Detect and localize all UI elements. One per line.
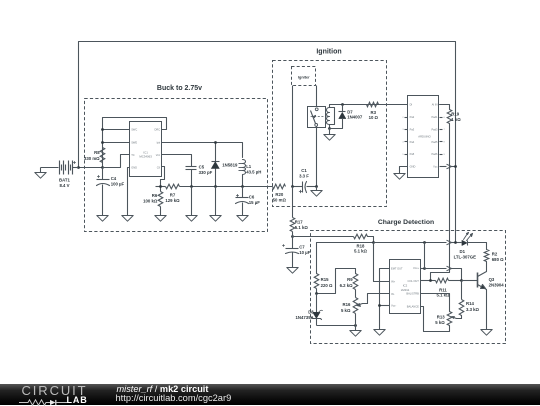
svg-text:ARDUINO: ARDUINO — [418, 135, 430, 139]
zener bar — [312, 318, 322, 320]
svg-text:680 Ω: 680 Ω — [492, 257, 504, 262]
wire SWC row — [103, 129, 130, 131]
inductor tick — [239, 163, 243, 165]
resistor R11 5.1 kOhm — [436, 278, 449, 283]
node R17/C7/R18 junction — [291, 235, 294, 238]
wire coil bottom to ground — [329, 129, 331, 135]
svg-text:Pad1: Pad1 — [431, 115, 438, 119]
wire buck output rail — [180, 186, 273, 188]
svg-text:Igniter: Igniter — [298, 76, 310, 80]
svg-text:5.1 kΩ: 5.1 kΩ — [354, 249, 368, 254]
ground (Q3) — [481, 330, 492, 336]
node C5/rail junction — [190, 185, 193, 188]
svg-text:5 kΩ: 5 kΩ — [341, 308, 351, 313]
node battery rail end junction — [454, 241, 457, 244]
node R15/R9/D8 junction — [315, 292, 318, 295]
resistor R8 330 mOhm — [100, 148, 105, 163]
capacitor C5 330 pF — [186, 166, 197, 168]
svg-text:R2: R2 — [492, 251, 498, 256]
pin stub — [405, 154, 408, 156]
capacitor C6 15 uF — [242, 187, 244, 198]
wire Arduino Vcc to battery rail — [440, 166, 447, 168]
node base junction — [460, 279, 463, 282]
LED arrow 2 — [467, 235, 472, 241]
LED D1 LTL-307GE — [462, 240, 467, 245]
node C1/relay junction — [315, 185, 318, 188]
node buck input junction — [101, 166, 104, 169]
Q3 emitter arrow — [481, 285, 486, 289]
wire wiper to IN- — [368, 294, 390, 304]
dashed box: Ignition section — [273, 61, 387, 207]
svg-text:R9: R9 — [347, 277, 353, 282]
svg-text:R7: R7 — [170, 192, 176, 197]
svg-text:LTL-307GE: LTL-307GE — [454, 254, 476, 259]
node Vcc+ junction — [423, 267, 426, 270]
svg-text:C4: C4 — [111, 176, 117, 181]
pin stub — [405, 129, 408, 131]
ground (1N5819) — [210, 216, 221, 222]
ground (IC1 GND) — [122, 216, 133, 222]
svg-text:SWC: SWC — [131, 128, 137, 132]
svg-text:C5: C5 — [199, 164, 205, 169]
svg-text:2: 2 — [402, 117, 404, 119]
wire AI IN to R19 and signal line down — [440, 105, 450, 110]
wire BAL/STRB to R13 top — [421, 294, 450, 312]
node R18/LED-row junction — [372, 241, 375, 244]
wire Ipk row to L1 top — [162, 143, 243, 158]
svg-text:IN+: IN+ — [391, 279, 396, 283]
svg-text:100 kΩ: 100 kΩ — [143, 199, 158, 204]
wire hop — [447, 164, 452, 169]
zener diode D8 1N4735A — [316, 294, 318, 313]
node Vcc/battery rail junction — [454, 165, 457, 168]
inductor tick — [239, 167, 243, 169]
ground (C5) — [186, 216, 197, 222]
svg-text:DI: DI — [410, 103, 413, 107]
svg-text:Vcc+: Vcc+ — [413, 266, 419, 270]
footer logo wire/resistor/diode — [19, 399, 50, 404]
svg-text:R6: R6 — [152, 193, 158, 198]
svg-text:Vcc: Vcc — [156, 153, 161, 157]
pin stub — [440, 141, 443, 143]
pin stub — [440, 154, 443, 156]
svg-text:1 kΩ: 1 kΩ — [451, 117, 461, 122]
node Vcc-/EMT junction — [378, 304, 381, 307]
resistor R18 5.1 kOhm — [354, 234, 368, 239]
battery + mark — [73, 161, 76, 164]
svg-text:R8: R8 — [94, 150, 100, 155]
svg-text:6: 6 — [444, 117, 446, 119]
svg-text:TC: TC — [131, 153, 135, 157]
wire CII pin jog to feedback node — [161, 167, 165, 187]
ground (Arduino) — [394, 174, 405, 180]
ground (relay coil) — [324, 135, 335, 141]
svg-text:8.4 V: 8.4 V — [59, 183, 69, 188]
node feedback junction — [159, 185, 162, 188]
svg-text:EMT OUT: EMT OUT — [391, 267, 403, 271]
svg-text:IN-: IN- — [391, 292, 395, 296]
svg-text:7: 7 — [444, 129, 446, 131]
pin stub — [405, 141, 408, 143]
svg-text:R18: R18 — [357, 243, 365, 248]
ground (C6) — [237, 216, 248, 222]
svg-text:LM311: LM311 — [401, 288, 410, 292]
svg-text:129 kΩ: 129 kΩ — [165, 198, 180, 203]
wire down to IN+ — [374, 243, 390, 282]
svg-text:330 mΩ: 330 mΩ — [84, 156, 100, 161]
svg-text:3.3 F: 3.3 F — [299, 173, 309, 178]
wire GND pin to ground — [128, 168, 130, 216]
svg-text:Ignition: Ignition — [316, 49, 341, 56]
svg-text:AI IN: AI IN — [432, 103, 438, 107]
wire hop — [447, 240, 452, 245]
node rail/igniter junction — [291, 185, 294, 188]
node rail/L1 junction — [241, 185, 244, 188]
dashed box: Igniter — [292, 67, 316, 86]
ground (battery) — [35, 173, 46, 179]
ground (C1) — [311, 191, 322, 197]
wire COL OUT row — [421, 280, 436, 282]
svg-text:Pa2: Pa2 — [410, 115, 415, 119]
wire DRC loop over IC1 to SWC — [103, 118, 167, 168]
wire battery negative to ground — [40, 168, 42, 173]
wire diode to ground — [215, 187, 217, 216]
dashed box: Charge Detection section — [311, 231, 506, 344]
capacitor C7 10 uF — [292, 232, 294, 249]
LED anode row — [317, 242, 374, 244]
svg-text:5 kΩ: 5 kΩ — [435, 320, 445, 325]
resistor R15 220 Ohm — [314, 274, 319, 289]
svg-text:C6: C6 — [249, 195, 255, 200]
svg-text:2N3904: 2N3904 — [489, 283, 505, 288]
wire hop — [447, 266, 452, 271]
dashed box: Buck section — [85, 99, 268, 232]
svg-text:SWE: SWE — [131, 140, 137, 144]
ground (divider) — [350, 331, 361, 337]
wire base — [462, 280, 478, 282]
node R16 bottom junction — [354, 324, 357, 327]
resistor R2 680 Ohm — [486, 243, 488, 250]
svg-text:10 µF: 10 µF — [299, 250, 310, 255]
wire left branch down to R15 — [316, 243, 318, 274]
svg-text:Ipk: Ipk — [157, 140, 161, 144]
wire signal line down right side — [431, 124, 450, 281]
svg-text:1N4007: 1N4007 — [347, 115, 363, 120]
relay switch body — [308, 107, 326, 128]
resistor R7 120 kOhm — [166, 184, 180, 189]
ground (C7) — [287, 268, 298, 274]
wire SWE row — [103, 142, 130, 144]
node COL OUT / signal junction — [429, 279, 432, 282]
pin stub — [440, 117, 443, 119]
wire igniter left terminal down to rail — [292, 86, 294, 187]
svg-text:15 µF: 15 µF — [249, 200, 260, 205]
svg-text:Vcc: Vcc — [433, 165, 438, 169]
svg-text:1N5819: 1N5819 — [222, 162, 238, 167]
IC U1 MC34063 body — [130, 122, 162, 177]
IC U2 LM311 body — [390, 260, 421, 314]
svg-text:R14: R14 — [466, 301, 474, 306]
wire to ground — [316, 187, 318, 191]
svg-text:D8: D8 — [308, 309, 314, 314]
svg-text:Pa3: Pa3 — [410, 127, 415, 131]
svg-text:10 Ω: 10 Ω — [369, 115, 379, 120]
wire C5 bottom to ground — [191, 187, 193, 216]
zener tick — [319, 310, 323, 312]
wire battery rail jog up into TC pin — [103, 155, 130, 168]
svg-text:Pad5: Pad5 — [431, 140, 438, 144]
svg-text:Pad3: Pad3 — [431, 127, 438, 131]
wire relay common down to C1 node — [316, 127, 318, 187]
resistor R3 10 Ohm — [367, 102, 379, 107]
svg-text:DRC: DRC — [154, 128, 160, 132]
Q3 emitter — [478, 285, 487, 330]
svg-text:COL OUT: COL OUT — [407, 279, 419, 283]
wire R9 top jog to R15 bottom — [317, 269, 356, 294]
node SWC junction — [101, 128, 104, 131]
resistor R14 3.3 kOhm — [459, 300, 464, 316]
node Ipk/diode junction — [214, 141, 217, 144]
node SWE junction — [101, 141, 104, 144]
wire BALANCE to R13 bottom — [421, 307, 450, 332]
wire Arduino GND to ground — [400, 167, 408, 174]
capacitor C4 100 uF — [102, 168, 104, 180]
wire Vcc pin to C5 — [162, 155, 192, 167]
inductor tick — [239, 170, 243, 172]
pin stub — [440, 129, 443, 131]
wire relay coil top to D7/R3 row — [330, 104, 408, 106]
svg-text:R19: R19 — [451, 111, 459, 116]
svg-text:BAT1: BAT1 — [59, 178, 71, 183]
svg-text:Pad6: Pad6 — [431, 152, 438, 156]
svg-text:R13: R13 — [437, 315, 445, 320]
svg-text:GND: GND — [410, 165, 416, 169]
svg-text:330 pF: 330 pF — [199, 170, 213, 175]
Q3 base bar — [477, 273, 479, 288]
node coil bottom junction — [328, 127, 331, 130]
svg-text:50 mΩ: 50 mΩ — [273, 198, 287, 203]
resistor R6 100 kOhm — [160, 187, 162, 192]
diode 1N5819 — [215, 143, 217, 162]
svg-text:Vcc-: Vcc- — [391, 303, 396, 307]
wire EMT OUT / Vcc- to ground — [380, 269, 390, 330]
svg-text:CII: CII — [157, 166, 161, 170]
svg-text:BALANCE: BALANCE — [407, 304, 419, 308]
svg-text:BAL/STRB: BAL/STRB — [406, 292, 419, 296]
transistor Q3 2N3904 — [478, 262, 487, 277]
capacitor C1 3.3 F — [293, 186, 303, 188]
R13 wiper to R14 bottom — [454, 318, 462, 319]
svg-text:Charge Detection: Charge Detection — [378, 219, 434, 226]
node LED row / Vcc+ feed junction — [423, 241, 426, 244]
wire battery row to buck input — [79, 167, 103, 169]
svg-text:5: 5 — [402, 154, 404, 156]
relay switch lever — [311, 111, 316, 124]
battery BAT1 8.4 V — [41, 167, 59, 169]
LED arrow 1 — [464, 234, 468, 240]
svg-text:9: 9 — [444, 154, 446, 156]
resistor R17 5.1 kOhm — [292, 187, 294, 218]
svg-text:R15: R15 — [321, 277, 329, 282]
svg-text:220 Ω: 220 Ω — [321, 283, 333, 288]
svg-text:Pa4: Pa4 — [410, 140, 415, 144]
svg-text:Buck to 2.75v: Buck to 2.75v — [157, 85, 202, 92]
node rail/diode junction — [214, 185, 217, 188]
svg-text:R20: R20 — [275, 192, 283, 197]
svg-text:4: 4 — [402, 142, 404, 144]
pin stub — [405, 117, 408, 119]
resistor R20 50 mOhm — [273, 184, 286, 189]
wire: battery positive rail up left side and across top to right side — [79, 42, 456, 243]
ground (R6) — [155, 216, 166, 222]
svg-text:3: 3 — [402, 129, 404, 131]
svg-text:C1: C1 — [301, 168, 307, 173]
svg-text:1N4735A: 1N4735A — [296, 315, 314, 320]
svg-text:C7: C7 — [299, 245, 305, 250]
potentiometer R16 5 kOhm — [355, 290, 357, 298]
svg-text:6.2 kΩ: 6.2 kΩ — [340, 283, 354, 288]
R16 wiper arrow — [360, 304, 368, 305]
relay lever arrow — [314, 116, 316, 118]
bottom rail of divider — [317, 325, 356, 327]
node battery/left-rail junction — [77, 166, 80, 169]
svg-text:5.1 kΩ: 5.1 kΩ — [295, 225, 309, 230]
potentiometer R13 5 kOhm — [447, 312, 452, 326]
wire igniter right terminal to relay switch — [316, 86, 318, 107]
svg-text:R16: R16 — [343, 302, 351, 307]
resistor R19 1 kOhm — [447, 110, 452, 124]
ground (C4) — [97, 216, 108, 222]
svg-text:GND: GND — [131, 166, 137, 170]
wire Vcc+ row — [421, 268, 425, 270]
svg-text:Pa5: Pa5 — [410, 152, 415, 156]
svg-text:Q3: Q3 — [489, 277, 495, 282]
ground (LM311) — [374, 330, 385, 336]
svg-text:100 µF: 100 µF — [111, 182, 125, 187]
inductor L1 43.5 uH — [243, 160, 246, 187]
relay coil bracket — [330, 108, 335, 125]
wire R18 row — [293, 236, 354, 238]
relay coil — [327, 105, 330, 129]
wire LED row down to Vcc+ — [424, 243, 426, 269]
svg-text:R17: R17 — [295, 219, 303, 224]
svg-text:8: 8 — [444, 142, 446, 144]
IC Arduino body — [408, 96, 439, 178]
node D7 cathode junction — [341, 103, 344, 106]
svg-text:L1: L1 — [246, 164, 252, 169]
svg-text:MC34063: MC34063 — [139, 155, 152, 159]
svg-text:43.5 µH: 43.5 µH — [246, 170, 261, 175]
svg-text:3.3 kΩ: 3.3 kΩ — [466, 307, 480, 312]
output rail of buck at y=186.6 — [156, 186, 166, 188]
